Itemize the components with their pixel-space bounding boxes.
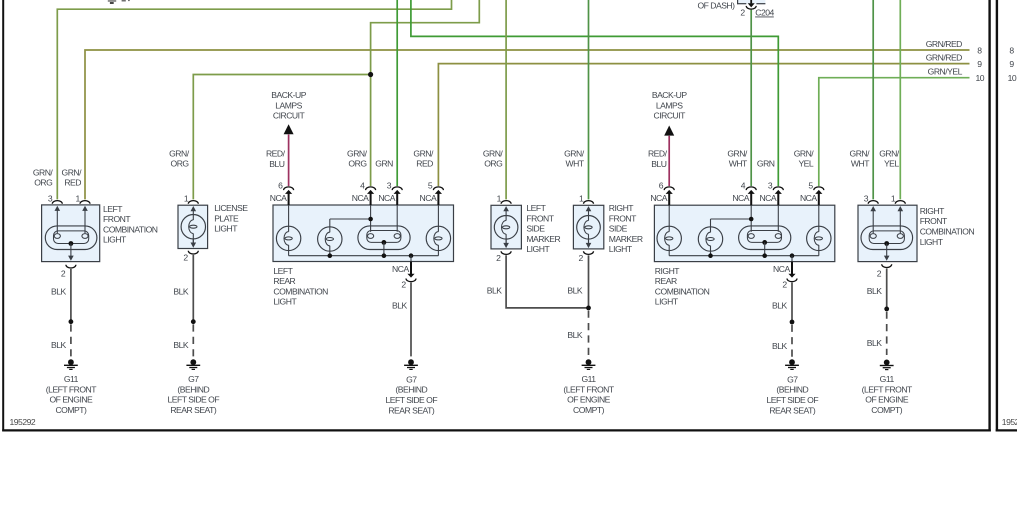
lamp: LEFT FRONT SIDE MARKER LIGHT bbox=[491, 193, 521, 249]
svg-text:NCA: NCA bbox=[378, 193, 395, 203]
svg-text:RED: RED bbox=[64, 178, 81, 188]
svg-text:9: 9 bbox=[1009, 59, 1014, 69]
svg-text:LIGHT: LIGHT bbox=[655, 297, 679, 307]
svg-text:GRN/YEL: GRN/YEL bbox=[928, 66, 963, 76]
svg-text:GRN/RED: GRN/RED bbox=[926, 52, 962, 62]
ground G7 (left rear) bbox=[408, 359, 414, 365]
svg-text:10: 10 bbox=[976, 73, 985, 83]
interior wiring of left rear combination light bbox=[289, 205, 439, 256]
cut-off ground symbol (top edge, from sheet above) bbox=[108, 0, 116, 2]
svg-text:GRN/: GRN/ bbox=[483, 148, 504, 158]
svg-text:NCA: NCA bbox=[732, 193, 749, 203]
ground G7 (right rear) bbox=[789, 359, 795, 365]
ground G11 (side markers) bbox=[586, 359, 592, 365]
wire BLK: license plate light to junction bbox=[192, 255, 194, 322]
wire GRN: top edge to right rear combination light pin 3 bbox=[411, 0, 778, 186]
wire GRN/WHT: connector C204 to right rear combination light pin 4 bbox=[750, 10, 752, 186]
pin 5 connector of left rear combination light bbox=[433, 187, 443, 190]
svg-text:BLK: BLK bbox=[867, 286, 883, 296]
svg-text:GRN/: GRN/ bbox=[169, 148, 190, 158]
svg-text:1: 1 bbox=[184, 193, 189, 203]
svg-text:3: 3 bbox=[387, 181, 392, 191]
svg-text:5: 5 bbox=[808, 181, 813, 191]
svg-text:2: 2 bbox=[401, 279, 406, 289]
svg-text:G11: G11 bbox=[581, 374, 596, 384]
svg-text:GRN/: GRN/ bbox=[727, 148, 748, 158]
svg-text:6: 6 bbox=[659, 181, 664, 191]
ground G7 (license plate) bbox=[190, 359, 196, 365]
svg-text:C204: C204 bbox=[755, 7, 774, 17]
svg-text:BLK: BLK bbox=[867, 338, 883, 348]
svg-text:REAR: REAR bbox=[273, 276, 295, 286]
lamp: LEFT REAR COMBINATION LIGHT bbox=[273, 205, 454, 262]
wire BLK (dashed) to ground G11 bbox=[70, 324, 72, 358]
svg-text:LIGHT: LIGHT bbox=[609, 244, 633, 254]
svg-text:BLK: BLK bbox=[51, 340, 67, 350]
svg-text:G11: G11 bbox=[64, 374, 79, 384]
svg-text:LEFT: LEFT bbox=[103, 204, 123, 214]
svg-text:4: 4 bbox=[741, 181, 746, 191]
svg-text:YEL: YEL bbox=[884, 159, 899, 169]
svg-text:COMBINATION: COMBINATION bbox=[655, 286, 710, 296]
svg-text:(BEHIND: (BEHIND bbox=[776, 385, 808, 395]
pin 5 connector of right rear combination light bbox=[814, 187, 824, 190]
lamp: RIGHT FRONT COMBINATION LIGHT bbox=[858, 193, 917, 261]
wire GRN/YEL: right rear combination light pin 5 to edge net 10 bbox=[819, 78, 970, 186]
svg-text:WHT: WHT bbox=[566, 159, 585, 169]
svg-text:LIGHT: LIGHT bbox=[526, 244, 550, 254]
svg-text:NCA: NCA bbox=[420, 193, 437, 203]
svg-text:2: 2 bbox=[877, 269, 882, 279]
svg-text:FRONT: FRONT bbox=[920, 216, 948, 226]
svg-text:NCA: NCA bbox=[392, 264, 409, 274]
svg-text:OF ENGINE: OF ENGINE bbox=[865, 395, 909, 405]
svg-text:RED/: RED/ bbox=[648, 149, 668, 159]
wire BLK (dashed) to ground G7 bbox=[192, 324, 194, 358]
svg-text:LEFT: LEFT bbox=[526, 203, 546, 213]
bulb 1 (back-up) bbox=[276, 226, 300, 250]
pin 3 connector of right rear combination light bbox=[773, 187, 783, 190]
wire RED/BLU: right rear pin 6 to back-up lamps circuit bbox=[668, 136, 670, 186]
lamp: RIGHT REAR COMBINATION LIGHT bbox=[654, 205, 834, 261]
splice junction bbox=[69, 319, 74, 324]
svg-text:G7: G7 bbox=[188, 374, 199, 384]
svg-text:GRN/: GRN/ bbox=[850, 148, 871, 158]
pin 6 connector of left rear combination light bbox=[284, 187, 294, 190]
svg-text:9: 9 bbox=[977, 59, 982, 69]
wire GRN/ORG: left front side marker light pin 1 to top edge bbox=[505, 0, 507, 199]
svg-text:LIGHT: LIGHT bbox=[920, 237, 944, 247]
ground G11 (right front) bbox=[884, 360, 890, 366]
svg-text:REAR SEAT): REAR SEAT) bbox=[388, 405, 435, 415]
svg-text:REAR: REAR bbox=[655, 276, 677, 286]
svg-text:BACK-UP: BACK-UP bbox=[271, 90, 306, 100]
svg-text:LICENSE: LICENSE bbox=[214, 203, 248, 213]
svg-text:2: 2 bbox=[61, 269, 66, 279]
wire BLK (dashed) to ground G7 bbox=[791, 325, 793, 358]
pin 2 connector of left front combination light bbox=[66, 265, 76, 268]
svg-text:8: 8 bbox=[977, 46, 982, 56]
svg-text:BLK: BLK bbox=[772, 341, 788, 351]
svg-text:COMPT): COMPT) bbox=[55, 405, 87, 415]
svg-text:ORG: ORG bbox=[484, 159, 503, 169]
svg-text:COMPT): COMPT) bbox=[573, 405, 605, 415]
svg-text:2: 2 bbox=[496, 253, 501, 263]
svg-text:(BEHIND: (BEHIND bbox=[177, 384, 209, 394]
wire BLK: right rear combination light to junction bbox=[791, 283, 793, 322]
svg-text:FRONT: FRONT bbox=[526, 213, 554, 223]
wire GRN/YEL: right front combination light pin 1 to top edge bbox=[899, 0, 901, 199]
wire BLK: left front side marker to junction bbox=[506, 255, 588, 308]
svg-text:2: 2 bbox=[579, 253, 584, 263]
svg-text:BLK: BLK bbox=[567, 286, 583, 296]
splice junction of marker grounds bbox=[586, 306, 591, 311]
svg-text:BLU: BLU bbox=[651, 159, 667, 169]
lamp: LEFT FRONT COMBINATION LIGHT bbox=[42, 193, 100, 261]
svg-text:FRONT: FRONT bbox=[609, 213, 637, 223]
svg-text:MARKER: MARKER bbox=[609, 234, 643, 244]
svg-text:3: 3 bbox=[48, 193, 53, 203]
svg-text:(LEFT FRONT: (LEFT FRONT bbox=[46, 384, 97, 394]
svg-text:2: 2 bbox=[740, 7, 745, 17]
wire GRN: left rear combination light pin 3 to top edge bbox=[396, 0, 398, 186]
svg-text:5: 5 bbox=[428, 181, 433, 191]
pin 6 connector of right rear combination light bbox=[664, 187, 674, 190]
svg-text:SIDE: SIDE bbox=[526, 224, 545, 234]
svg-text:(BEHIND: (BEHIND bbox=[395, 385, 427, 395]
svg-text:ORG: ORG bbox=[34, 178, 53, 188]
svg-text:OF ENGINE: OF ENGINE bbox=[567, 395, 611, 405]
pin 4 connector of left rear combination light bbox=[366, 187, 376, 190]
pin 2 connector of license plate light bbox=[188, 251, 198, 254]
svg-text:LIGHT: LIGHT bbox=[214, 224, 238, 234]
bus junctions bbox=[328, 253, 333, 258]
wire GRN/ORG: license plate light pin 1 to junction bbox=[193, 75, 370, 200]
svg-text:RIGHT: RIGHT bbox=[655, 266, 680, 276]
svg-text:COMBINATION: COMBINATION bbox=[273, 286, 328, 296]
svg-text:COMBINATION: COMBINATION bbox=[920, 227, 975, 237]
svg-text:WHT: WHT bbox=[729, 159, 748, 169]
svg-text:PLATE: PLATE bbox=[214, 213, 239, 223]
svg-text:G7: G7 bbox=[406, 374, 417, 384]
bulb 1 (back-up) bbox=[657, 226, 681, 250]
svg-text:ORG: ORG bbox=[171, 159, 190, 169]
svg-text:WHT: WHT bbox=[851, 159, 870, 169]
lamp: LICENSE PLATE LIGHT bbox=[178, 193, 208, 248]
svg-text:RIGHT: RIGHT bbox=[609, 203, 634, 213]
svg-text:10: 10 bbox=[1008, 73, 1017, 83]
wire BLK: right front combination light to junction bbox=[886, 268, 888, 309]
svg-text:BACK-UP: BACK-UP bbox=[652, 90, 687, 100]
svg-text:FRONT: FRONT bbox=[103, 214, 131, 224]
svg-text:LAMPS: LAMPS bbox=[275, 100, 302, 110]
svg-text:COMBINATION: COMBINATION bbox=[103, 224, 158, 234]
junction: GRN/ORG license plate / left rear pin 4 bbox=[368, 72, 373, 77]
bulb 4 bbox=[426, 226, 450, 250]
svg-text:NCA: NCA bbox=[759, 193, 776, 203]
svg-text:3: 3 bbox=[768, 181, 773, 191]
svg-text:CIRCUIT: CIRCUIT bbox=[273, 111, 306, 121]
svg-text:2: 2 bbox=[183, 253, 188, 263]
pin 4 connector of right rear combination light bbox=[746, 187, 756, 190]
svg-text:1: 1 bbox=[891, 193, 896, 203]
svg-text:NCA: NCA bbox=[650, 193, 667, 203]
svg-text:LEFT SIDE OF: LEFT SIDE OF bbox=[766, 395, 818, 405]
wire GRN/RED: left front combination light pin 1 to edge net 8 bbox=[85, 50, 970, 199]
wire BLK: right front side marker to junction bbox=[588, 255, 590, 308]
arrow: back-up lamps circuit (right) bbox=[664, 126, 674, 136]
svg-text:SIDE: SIDE bbox=[609, 224, 628, 234]
svg-text:G11: G11 bbox=[880, 374, 895, 384]
svg-text:BLU: BLU bbox=[269, 159, 285, 169]
splice junction bbox=[790, 320, 795, 325]
svg-text:1: 1 bbox=[579, 193, 584, 203]
svg-text:LEFT SIDE OF: LEFT SIDE OF bbox=[385, 395, 437, 405]
bulb 2 bbox=[318, 227, 342, 251]
svg-text:COMPT): COMPT) bbox=[871, 405, 903, 415]
svg-text:3: 3 bbox=[864, 193, 869, 203]
splice junction bbox=[191, 319, 196, 324]
svg-text:NCA: NCA bbox=[270, 193, 287, 203]
wire GRN/RED: left rear combination light pin 5 to edge net 9 bbox=[438, 64, 969, 186]
wire GRN/ORG: left front combination light pin 3 to top edge bbox=[57, 0, 451, 199]
svg-text:2: 2 bbox=[782, 279, 787, 289]
svg-text:LIGHT: LIGHT bbox=[103, 235, 127, 245]
lamp: RIGHT FRONT SIDE MARKER LIGHT bbox=[573, 193, 603, 249]
svg-text:G7: G7 bbox=[787, 374, 798, 384]
pin 2 connector of right front combination light bbox=[882, 264, 892, 267]
svg-text:LEFT SIDE OF: LEFT SIDE OF bbox=[167, 395, 219, 405]
svg-text:YEL: YEL bbox=[798, 159, 813, 169]
svg-text:(LEFT FRONT: (LEFT FRONT bbox=[862, 384, 913, 394]
svg-text:GRN: GRN bbox=[375, 159, 393, 169]
svg-text:LEFT: LEFT bbox=[273, 266, 293, 276]
wire BLK (dashed) to ground G11 bbox=[588, 311, 590, 358]
svg-text:BLK: BLK bbox=[392, 300, 408, 310]
connector C204 (at top edge) bbox=[738, 0, 766, 4]
svg-text:1: 1 bbox=[497, 193, 502, 203]
svg-text:LAMPS: LAMPS bbox=[656, 100, 683, 110]
wire GRN/WHT: right front combination light pin 3 to top edge bbox=[872, 0, 874, 199]
svg-text:NCA: NCA bbox=[800, 193, 817, 203]
svg-text:8: 8 bbox=[1009, 46, 1014, 56]
svg-text:BLK: BLK bbox=[173, 340, 189, 350]
pin 2 connector of left front side marker light bbox=[501, 251, 511, 254]
splice junction bbox=[884, 307, 889, 312]
svg-text:19529: 19529 bbox=[1002, 417, 1017, 427]
svg-text:GRN/: GRN/ bbox=[564, 148, 585, 158]
svg-text:REAR SEAT): REAR SEAT) bbox=[170, 405, 217, 415]
bulb 4 bbox=[807, 226, 831, 250]
svg-text:GRN/: GRN/ bbox=[33, 167, 54, 177]
svg-text:OF ENGINE: OF ENGINE bbox=[50, 395, 94, 405]
svg-text:(LEFT FRONT: (LEFT FRONT bbox=[563, 384, 614, 394]
svg-text:6: 6 bbox=[278, 181, 283, 191]
dual filament bulb (stop/tail) bbox=[739, 226, 791, 250]
pin 3 connector of left rear combination light bbox=[392, 187, 402, 190]
svg-text:BLK: BLK bbox=[173, 286, 189, 296]
svg-text:GRN/: GRN/ bbox=[879, 148, 900, 158]
svg-text:GRN/RED: GRN/RED bbox=[926, 39, 962, 49]
svg-text:BLK: BLK bbox=[51, 286, 67, 296]
svg-text:RED: RED bbox=[416, 159, 433, 169]
dual filament bulb (stop/tail) bbox=[358, 226, 410, 250]
pin 2 connector of right front side marker light bbox=[584, 251, 594, 254]
ground G11 (left) bbox=[68, 359, 74, 365]
svg-text:NCA: NCA bbox=[352, 193, 369, 203]
svg-text:GRN/: GRN/ bbox=[62, 167, 83, 177]
svg-text:BLK: BLK bbox=[772, 300, 788, 310]
svg-text:GRN: GRN bbox=[757, 159, 775, 169]
svg-text:NCA: NCA bbox=[773, 264, 790, 274]
svg-text:REAR SEAT): REAR SEAT) bbox=[769, 405, 816, 415]
wire BLK (dashed) to ground G11 bbox=[886, 312, 888, 355]
arrow: back-up lamps circuit (left) bbox=[284, 124, 294, 134]
svg-text:RIGHT: RIGHT bbox=[920, 206, 945, 216]
svg-text:ORG: ORG bbox=[348, 159, 367, 169]
svg-text:MARKER: MARKER bbox=[526, 234, 560, 244]
svg-text:BLK: BLK bbox=[567, 330, 583, 340]
svg-text:195292: 195292 bbox=[10, 417, 36, 427]
svg-text:GRN/: GRN/ bbox=[347, 148, 368, 158]
interior wiring of right rear combination light bbox=[669, 205, 819, 256]
svg-text:OF DASH): OF DASH) bbox=[697, 0, 735, 10]
svg-text:BLK: BLK bbox=[487, 286, 503, 296]
svg-text:CIRCUIT: CIRCUIT bbox=[654, 111, 687, 121]
svg-text:RED/: RED/ bbox=[266, 149, 286, 159]
svg-text:GRN/: GRN/ bbox=[794, 148, 815, 158]
svg-text:GRN/: GRN/ bbox=[413, 148, 434, 158]
wire BLK: left front combination light to junction bbox=[70, 269, 72, 322]
wire RED/BLU: left rear pin 6 to back-up lamps circuit bbox=[288, 135, 290, 187]
wire BLK: left rear combination light to ground G7 bbox=[410, 283, 412, 357]
svg-text:LIGHT: LIGHT bbox=[273, 297, 297, 307]
wire GRN/ORG: left rear combination light pin 4 to top edge bbox=[371, 0, 480, 186]
svg-text:4: 4 bbox=[360, 181, 365, 191]
svg-text:1: 1 bbox=[76, 193, 81, 203]
bulb 2 bbox=[698, 227, 722, 251]
wire GRN/WHT: right front side marker light pin 1 to top edge bbox=[588, 0, 590, 199]
bus junctions bbox=[708, 253, 713, 258]
